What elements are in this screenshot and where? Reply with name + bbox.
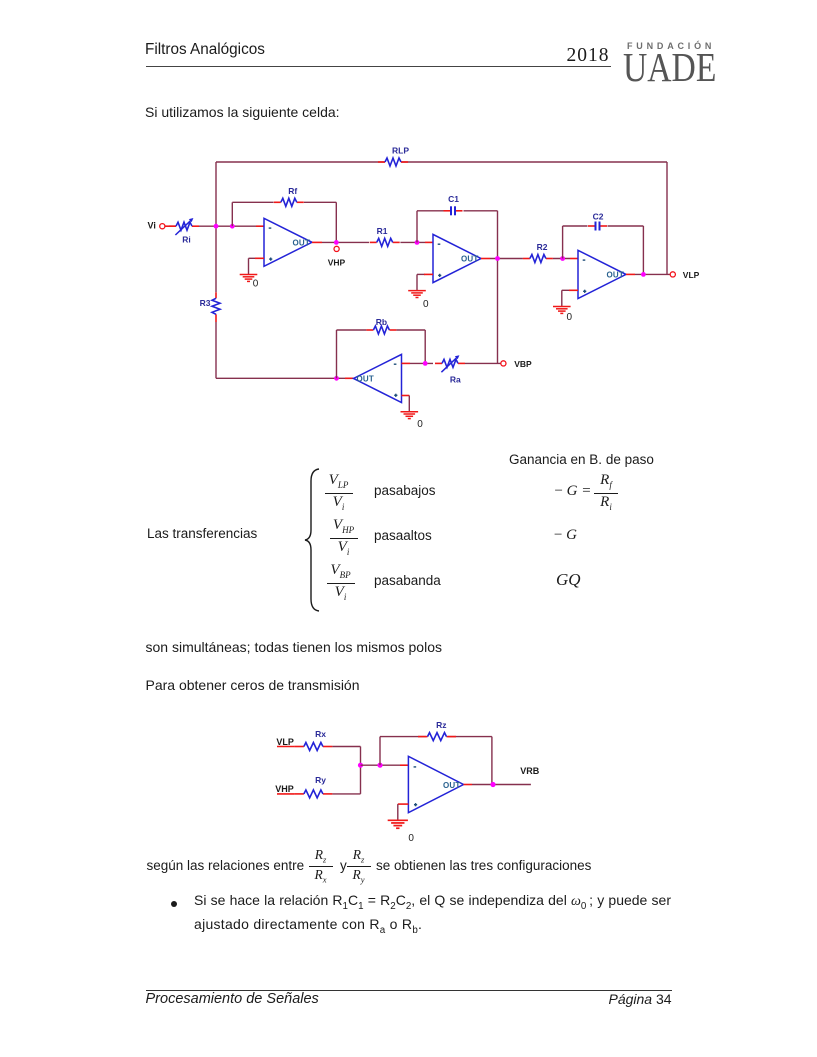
label VLP xyxy=(683,270,700,280)
resistor Rb xyxy=(366,317,396,334)
node junction U4 input xyxy=(423,361,428,366)
capacitor C1 xyxy=(444,194,463,215)
svg-text:VRB: VRB xyxy=(520,766,540,776)
terminal Vi input xyxy=(160,224,165,229)
wire U3 + input to ground xyxy=(562,289,578,291)
svg-text:0: 0 xyxy=(567,312,573,323)
wire U2 output to R2 xyxy=(481,258,523,260)
node junction U5 output xyxy=(490,782,495,787)
wire U1 + input to ground xyxy=(249,257,265,259)
svg-text:0: 0 xyxy=(253,279,259,290)
wire Vi to Ri xyxy=(165,225,176,227)
svg-text:Rb: Rb xyxy=(376,317,387,327)
svg-text:Ri: Ri xyxy=(182,235,191,245)
node junction U2 output xyxy=(495,256,500,261)
label Ri xyxy=(182,235,191,245)
wire Ra to VBP xyxy=(465,362,501,364)
svg-text:Rf: Rf xyxy=(288,186,297,196)
node junction Rb branch xyxy=(334,376,339,381)
node junction U3 output xyxy=(641,272,646,277)
svg-text:C2: C2 xyxy=(593,211,604,221)
svg-text:OUT: OUT xyxy=(607,270,625,279)
label VHP input xyxy=(275,784,294,794)
svg-text:R3: R3 xyxy=(200,298,211,308)
resistor Ry xyxy=(294,775,332,798)
wire Rb feedback loop xyxy=(337,330,426,378)
svg-text:OUT: OUT xyxy=(461,254,479,263)
resistor Rx xyxy=(294,729,332,751)
svg-text:0: 0 xyxy=(417,419,423,430)
wire top feedback (RLP net) xyxy=(216,161,667,163)
node junction U2 input xyxy=(415,240,420,245)
node junction Rf branch xyxy=(230,224,235,229)
wire U4 + input to ground xyxy=(402,395,410,397)
wire bottom from R3 to op-amp U4 output xyxy=(216,377,354,379)
svg-text:R2: R2 xyxy=(537,242,548,252)
resistor R3 xyxy=(212,292,220,322)
wire R1 to op-amp U2 xyxy=(400,241,433,243)
svg-text:R1: R1 xyxy=(377,226,388,236)
svg-text:0: 0 xyxy=(408,833,414,844)
svg-text:VBP: VBP xyxy=(514,359,532,369)
wire C1 feedback loop xyxy=(417,211,498,364)
ground U3 (0) xyxy=(553,290,573,323)
label OUT U5 xyxy=(443,781,461,790)
wire Ri to op-amp U1 inverting input xyxy=(199,225,264,227)
wire U2 + input to ground xyxy=(417,273,433,275)
node junction at left vertical and input xyxy=(214,224,219,229)
label OUT U1 xyxy=(293,238,311,247)
label OUT U2 xyxy=(461,254,479,263)
op-amp U4 (mirrored) xyxy=(354,354,402,402)
wire node to op-amp U5 xyxy=(361,764,409,766)
wire U1 output to R1 xyxy=(312,241,369,243)
wire U5 + input to ground xyxy=(398,803,409,805)
node junction VHP xyxy=(334,240,339,245)
capacitor C2 xyxy=(588,211,607,230)
label VBP xyxy=(514,359,532,369)
ground U4 (0) xyxy=(401,396,424,431)
wire left vertical from RLP to R3/node xyxy=(215,162,217,292)
resistor R2 xyxy=(523,242,553,263)
wire U3 output to VLP xyxy=(626,273,670,275)
resistor RLP xyxy=(378,146,409,167)
ground U2 (0) xyxy=(408,274,429,310)
wire U4 - input to Ra xyxy=(402,362,434,364)
op-amp U2 xyxy=(433,234,481,282)
resistor Rf xyxy=(274,186,304,206)
svg-text:Ry: Ry xyxy=(315,775,326,785)
label VHP xyxy=(328,258,346,268)
label Ra xyxy=(450,375,461,385)
resistor Ra (variable) xyxy=(435,355,465,372)
wire right vertical RLP to VLP output xyxy=(666,162,668,274)
C1SVG xyxy=(140,140,720,440)
svg-text:RLP: RLP xyxy=(392,146,409,156)
wire VLP to Rx xyxy=(277,746,294,748)
svg-text:0: 0 xyxy=(423,299,429,310)
op-amp U5 xyxy=(408,756,463,812)
label OUT U3 xyxy=(607,270,625,279)
label Vi xyxy=(148,221,156,231)
node junction Rz branch xyxy=(377,763,382,768)
terminal VHP xyxy=(334,246,339,251)
op-amp U3 xyxy=(578,250,626,298)
svg-text:C1: C1 xyxy=(448,194,459,204)
resistor Rz xyxy=(418,720,456,741)
wire Rx to node xyxy=(332,747,360,766)
wire VHP to Ry xyxy=(277,793,294,795)
terminal VBP xyxy=(501,361,506,366)
brace xyxy=(300,467,324,613)
label VRB output xyxy=(520,766,540,776)
C2SVG xyxy=(270,710,560,855)
wire C2 feedback loop xyxy=(563,226,644,274)
svg-text:Ra: Ra xyxy=(450,375,461,385)
wire U5 output to VRB xyxy=(464,784,531,786)
fractions column xyxy=(325,472,353,512)
resistor R1 xyxy=(370,226,400,246)
svg-text:VHP: VHP xyxy=(275,784,294,794)
ground U5 (0) xyxy=(388,804,415,844)
label R3 xyxy=(200,298,211,308)
resistor Ri (variable) xyxy=(169,218,199,235)
ground U1 (0) xyxy=(240,258,259,289)
label VLP input xyxy=(276,737,294,747)
node junction U3 input xyxy=(560,256,565,261)
wire Rf feedback loop xyxy=(232,202,336,242)
label OUT U4 xyxy=(357,374,375,383)
svg-text:OUT: OUT xyxy=(293,238,311,247)
node junction inputs xyxy=(358,763,363,768)
svg-text:Rx: Rx xyxy=(315,729,326,739)
svg-text:Vi: Vi xyxy=(148,221,156,231)
svg-text:Rz: Rz xyxy=(436,720,446,730)
wire left vertical below R3 to bottom xyxy=(215,322,217,378)
svg-text:OUT: OUT xyxy=(357,374,375,383)
op-amp U1 xyxy=(264,218,312,266)
right math column xyxy=(554,483,592,500)
svg-text:VHP: VHP xyxy=(328,258,346,268)
wire R2 to op-amp U3 xyxy=(553,258,578,260)
wire Rz feedback loop xyxy=(380,737,492,785)
svg-text:VLP: VLP xyxy=(683,270,700,280)
svg-text:OUT: OUT xyxy=(443,781,461,790)
terminal VLP xyxy=(670,272,675,277)
bullet paragraph xyxy=(171,901,177,907)
wire Ry to node xyxy=(332,765,360,794)
